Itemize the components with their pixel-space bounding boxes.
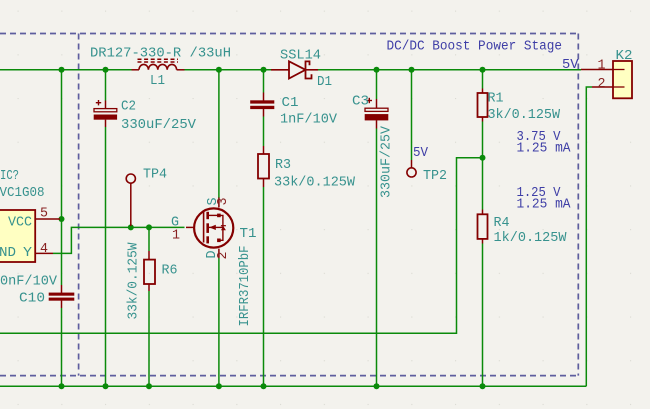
svg-text:TP2: TP2 <box>423 168 447 184</box>
svg-text:33k/0.125W: 33k/0.125W <box>126 242 142 319</box>
junction rail L1 left <box>103 67 109 73</box>
svg-text:IRFR3710PbF: IRFR3710PbF <box>237 246 253 327</box>
junction gate TP4 <box>128 224 134 230</box>
svg-text:T1: T1 <box>240 226 257 242</box>
svg-text:VCC: VCC <box>8 215 32 231</box>
wire K2 pin2 drop <box>586 87 592 386</box>
svg-text:IC?: IC? <box>0 168 19 184</box>
svg-text:1: 1 <box>598 58 606 74</box>
svg-text:3: 3 <box>215 198 231 206</box>
junction rail C1 <box>261 67 267 73</box>
svg-text:C3: C3 <box>352 94 369 110</box>
wire feedback run <box>0 158 483 333</box>
connector K2 <box>613 61 632 98</box>
transistor T1 <box>186 198 233 259</box>
capacitor C2 <box>94 100 117 127</box>
svg-text:SSL14: SSL14 <box>280 48 321 64</box>
svg-text:330uF/25V: 330uF/25V <box>379 126 395 198</box>
svg-text:1k/0.125W: 1k/0.125W <box>494 230 567 246</box>
wire C3 branch <box>376 70 378 387</box>
junction bus x376 <box>374 383 380 389</box>
wire C2 branch <box>105 70 107 387</box>
wire TP2 drop <box>411 70 413 160</box>
svg-text:5V: 5V <box>562 57 579 73</box>
svg-text:2: 2 <box>215 252 231 260</box>
junction bus x61 <box>59 383 65 389</box>
wire top rail <box>0 69 581 71</box>
svg-text:2: 2 <box>598 76 606 92</box>
junction divider mid <box>480 155 486 161</box>
wire T1 source riser <box>218 70 220 198</box>
svg-text:R4: R4 <box>494 215 510 231</box>
svg-text:1.25 mA: 1.25 mA <box>517 197 571 213</box>
test point TP4 <box>126 174 135 183</box>
svg-text:R3: R3 <box>275 157 291 173</box>
svg-text:1.25 mA: 1.25 mA <box>517 141 571 157</box>
svg-text:C2: C2 <box>121 99 136 115</box>
svg-text:K2: K2 <box>616 48 633 64</box>
junction bus x219 <box>216 383 222 389</box>
svg-text:ND: ND <box>0 245 16 261</box>
diode D1 <box>271 61 318 78</box>
dashed box DC/DC Boost Power Stage <box>0 34 578 376</box>
junction bus x263 <box>261 383 267 389</box>
wire IC VCC riser <box>61 70 63 387</box>
wire R1 R4 divider <box>482 70 484 387</box>
svg-text:5V: 5V <box>413 145 428 161</box>
junction rail T1 <box>216 67 222 73</box>
test point TP2 <box>407 168 416 177</box>
resistor R4 <box>478 210 488 244</box>
capacitor C1 <box>251 93 275 117</box>
junction rail R1 <box>480 67 486 73</box>
junction bus x148 <box>146 383 152 389</box>
wire T1 drain to ground <box>218 258 220 386</box>
svg-text:5: 5 <box>40 206 48 222</box>
wire R6 branch <box>148 227 150 386</box>
wire C1 R3 branch <box>263 70 265 387</box>
svg-text:TP4: TP4 <box>143 167 167 183</box>
svg-text:33k/0.125W: 33k/0.125W <box>274 175 355 191</box>
junction bus x105 <box>103 383 109 389</box>
resistor R6 <box>144 251 155 291</box>
capacitor C10 <box>49 285 74 308</box>
svg-text:4: 4 <box>40 241 48 257</box>
inductor L1 <box>132 59 185 70</box>
svg-text:330uF/25V: 330uF/25V <box>121 117 196 133</box>
svg-text:Y: Y <box>23 245 33 261</box>
svg-text:D1: D1 <box>317 74 332 90</box>
svg-text:DR127-330-R /33uH: DR127-330-R /33uH <box>90 46 231 62</box>
junction gate R6 <box>146 224 152 230</box>
svg-text:R1: R1 <box>488 91 504 107</box>
resistor R3 <box>258 146 269 187</box>
svg-text:3k/0.125W: 3k/0.125W <box>488 107 561 123</box>
svg-text:L1: L1 <box>150 73 165 89</box>
svg-text:R6: R6 <box>162 263 178 279</box>
wire IC Y to gate <box>53 227 185 253</box>
svg-text:0nF/10V: 0nF/10V <box>0 274 57 290</box>
junction VCC pin5 <box>59 216 65 222</box>
svg-text:VC1G08: VC1G08 <box>0 185 45 201</box>
junction rail C2 <box>59 67 65 73</box>
svg-text:C1: C1 <box>282 95 299 111</box>
junction rail C3 <box>374 67 380 73</box>
junction rail TP2 <box>409 67 415 73</box>
svg-text:1: 1 <box>172 228 180 244</box>
junction bus x482 <box>480 383 486 389</box>
IC U1 box <box>0 210 35 262</box>
svg-text:C10: C10 <box>19 291 45 307</box>
wire bottom bus <box>0 385 586 387</box>
svg-text:DC/DC Boost Power Stage: DC/DC Boost Power Stage <box>387 39 563 55</box>
resistor R1 <box>478 89 488 122</box>
capacitor C3 <box>365 98 388 129</box>
svg-text:1nF/10V: 1nF/10V <box>280 112 337 128</box>
